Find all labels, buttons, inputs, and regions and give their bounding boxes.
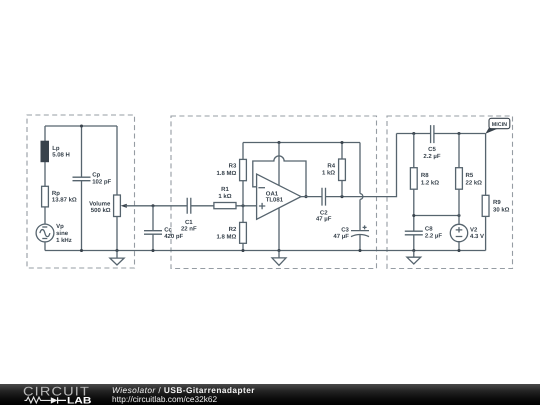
svg-text:http://circuitlab.com/ce32k62: http://circuitlab.com/ce32k62: [112, 394, 218, 404]
footer title line: [112, 385, 255, 395]
svg-text:5.08 H: 5.08 H: [52, 152, 70, 159]
svg-text:420 pF: 420 pF: [164, 233, 183, 240]
capacitor C8: [405, 226, 443, 240]
top supply rail: [243, 142, 360, 144]
ground middle box: [272, 251, 286, 266]
svg-text:Lp: Lp: [52, 145, 60, 152]
footer bar: [0, 384, 540, 405]
wire Volume branch: [116, 126, 118, 251]
wire output to C2: [301, 196, 322, 198]
resistor R3: [216, 159, 246, 180]
svg-text:C8: C8: [425, 226, 433, 233]
source V2: [450, 224, 484, 241]
capacitor C2: [316, 188, 332, 223]
junction V2 bottom: [457, 249, 460, 252]
flag MICIN: [485, 118, 509, 133]
svg-text:1 kΩ: 1 kΩ: [218, 193, 231, 200]
svg-text:C1: C1: [185, 219, 193, 226]
svg-text:TL081: TL081: [266, 197, 284, 204]
resistor R4: [322, 159, 345, 181]
svg-text:1 kHz: 1 kHz: [56, 237, 72, 244]
stage boundary box 2 (preamp): [171, 116, 377, 269]
junction C8 ground: [412, 249, 415, 252]
wire op-amp V- to ground: [278, 208, 280, 251]
svg-text:102 pF: 102 pF: [92, 178, 111, 185]
svg-text:C5: C5: [428, 146, 436, 153]
ground rail: [45, 250, 486, 252]
junction Cc bottom: [151, 249, 154, 252]
stage boundary box 1 (pickup model): [27, 115, 135, 268]
svg-text:22 kΩ: 22 kΩ: [466, 179, 483, 186]
resistor R9: [482, 195, 509, 216]
svg-text:4.3 V: 4.3 V: [470, 233, 484, 240]
svg-text:R3: R3: [229, 163, 237, 170]
capacitor Cc: [144, 226, 184, 240]
svg-text:22 nF: 22 nF: [181, 226, 197, 233]
wire R8 branch: [413, 134, 415, 251]
top line right box: [397, 133, 486, 135]
wire R2 branch: [242, 206, 244, 251]
junction C3 ground: [358, 249, 361, 252]
wire Cp branch: [81, 126, 83, 251]
svg-text:R1: R1: [221, 186, 229, 193]
logo LAB text: [67, 395, 92, 405]
svg-text:V2: V2: [470, 227, 478, 234]
capacitor C1: [181, 198, 197, 233]
wire C1 to R1: [191, 205, 214, 207]
svg-text:47 µF: 47 µF: [333, 233, 349, 240]
wire R3 branch: [242, 143, 244, 206]
wire wiper to C1: [125, 205, 187, 207]
mid bias line: [414, 215, 459, 217]
svg-text:30 kΩ: 30 kΩ: [493, 206, 510, 213]
svg-text:LAB: LAB: [67, 395, 92, 405]
junction op-amp ground: [277, 249, 280, 252]
capacitor C5: [423, 125, 440, 160]
junction R5 mid: [457, 214, 460, 217]
svg-text:Cp: Cp: [92, 172, 100, 179]
svg-text:1 kΩ: 1 kΩ: [322, 170, 335, 177]
logo resistor zigzag: [25, 397, 51, 403]
junction R8 top: [412, 132, 415, 135]
logo CIRCUIT text: [23, 385, 90, 399]
junction bottom Cp: [80, 249, 83, 252]
wire op-amp V+: [278, 143, 280, 186]
capacitor Cp: [73, 172, 112, 186]
wire R1 to op-amp: [236, 205, 257, 207]
svg-text:R5: R5: [466, 172, 474, 179]
svg-text:1.2 kΩ: 1.2 kΩ: [421, 179, 439, 186]
resistor R5: [456, 168, 483, 190]
svg-text:MICIN: MICIN: [492, 122, 507, 128]
feedback wire: [253, 156, 306, 197]
svg-text:OA1: OA1: [266, 190, 279, 197]
svg-text:R4: R4: [327, 163, 335, 170]
svg-text:47 µF: 47 µF: [316, 216, 332, 223]
junction top Cp: [80, 124, 83, 127]
wire R9 branch: [485, 134, 487, 251]
wire supply drop with hop: [360, 143, 363, 231]
junction V+ feed: [277, 141, 280, 144]
resistor R1: [214, 186, 236, 209]
source Vp sine: [36, 223, 72, 244]
svg-text:R2: R2: [229, 226, 237, 233]
junction Cc top: [151, 204, 154, 207]
junction R4 bottom: [340, 195, 343, 198]
svg-text:C2: C2: [320, 209, 328, 216]
junction R4 top: [340, 141, 343, 144]
wire R4 branch: [341, 143, 343, 197]
capacitor C3 polarized: [333, 225, 369, 240]
logo diode: [51, 397, 66, 403]
inductor Lp: [41, 141, 70, 162]
resistor R2: [216, 222, 246, 243]
junction R5 top: [457, 132, 460, 135]
svg-text:C3: C3: [341, 227, 349, 234]
potentiometer Volume: [89, 195, 127, 217]
stage boundary box 3 (soundcard input): [387, 116, 513, 269]
svg-text:Cc: Cc: [164, 226, 172, 233]
resistor R8: [410, 168, 439, 190]
svg-text:500 kΩ: 500 kΩ: [91, 207, 111, 214]
ground right box: [407, 251, 421, 265]
svg-text:R9: R9: [493, 199, 501, 206]
wire C3 to ground: [359, 235, 361, 251]
wire top left box: [45, 125, 117, 127]
wire Lp branch: [44, 126, 46, 251]
resistor Rp: [42, 186, 77, 207]
footer url line: [112, 394, 218, 404]
junction Volume bottom: [115, 249, 118, 252]
svg-text:Volume: Volume: [89, 201, 111, 208]
wire Cc branch: [152, 206, 154, 251]
wire C2 to right box: [326, 134, 397, 197]
svg-text:sine: sine: [56, 230, 69, 237]
svg-text:1.8 MΩ: 1.8 MΩ: [216, 170, 236, 177]
junction output node: [304, 195, 307, 198]
junction R2 bottom: [241, 249, 244, 252]
svg-text:1.8 MΩ: 1.8 MΩ: [216, 233, 236, 240]
svg-text:R8: R8: [421, 172, 429, 179]
wire R5 branch: [458, 134, 460, 251]
svg-text:Rp: Rp: [52, 190, 60, 197]
junction R8 mid: [412, 214, 415, 217]
svg-text:2.2 µF: 2.2 µF: [425, 233, 442, 240]
svg-text:13.87 kΩ: 13.87 kΩ: [52, 197, 77, 204]
junction input node: [241, 204, 244, 207]
svg-text:Vp: Vp: [56, 223, 64, 230]
svg-text:2.2 µF: 2.2 µF: [423, 153, 440, 160]
ground left box: [110, 251, 124, 266]
op-amp OA1: [257, 174, 301, 219]
